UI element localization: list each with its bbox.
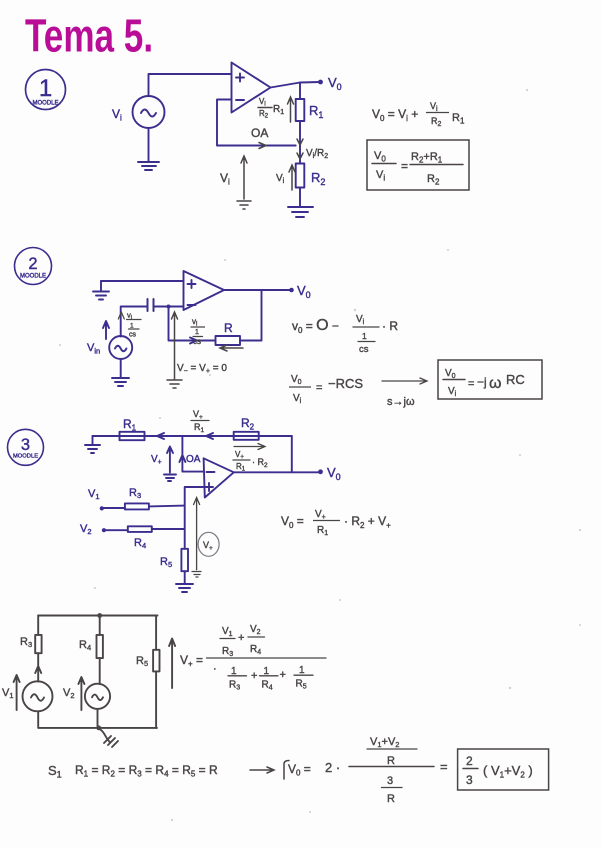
svg-text:=: = <box>316 382 322 394</box>
svg-text:cs: cs <box>359 344 369 355</box>
svg-text:V1+V2: V1+V2 <box>370 736 399 749</box>
svg-text:cs: cs <box>193 337 201 346</box>
svg-text:OA: OA <box>186 454 201 465</box>
svg-text:R1 = R2 = R3 = R4 = R5 = R: R1 = R2 = R3 = R4 = R5 = R <box>75 763 218 779</box>
svg-text:+: + <box>251 670 257 682</box>
svg-text:1: 1 <box>264 666 270 677</box>
svg-text:3: 3 <box>466 773 473 787</box>
svg-text:MOODLE: MOODLE <box>32 101 58 107</box>
svg-text:1: 1 <box>362 331 367 341</box>
svg-text:−j: −j <box>477 375 487 389</box>
svg-text:R: R <box>387 755 395 767</box>
svg-text:=: = <box>468 378 474 390</box>
svg-text:1: 1 <box>231 666 237 677</box>
svg-text:MOODLE: MOODLE <box>20 274 46 280</box>
svg-text:2: 2 <box>28 255 37 273</box>
svg-text:1: 1 <box>195 329 199 336</box>
svg-text:=: = <box>440 759 448 774</box>
svg-text:1: 1 <box>130 323 134 330</box>
svg-text:2 ·: 2 · <box>325 760 340 775</box>
svg-text:3: 3 <box>387 775 393 787</box>
svg-text:=: = <box>401 159 408 173</box>
svg-text:cs: cs <box>129 332 137 339</box>
svg-text:s→jω: s→jω <box>387 396 415 408</box>
svg-text:V0 = Vi +: V0 = Vi + <box>372 107 418 123</box>
svg-text:1: 1 <box>299 665 305 676</box>
svg-text:Tema 5.: Tema 5. <box>25 10 153 62</box>
svg-text:ω: ω <box>489 375 502 392</box>
svg-text:( V1+V2 ): ( V1+V2 ) <box>483 763 533 780</box>
svg-text:1: 1 <box>39 75 52 102</box>
svg-text:RC: RC <box>506 372 525 387</box>
svg-text:R: R <box>224 321 233 335</box>
svg-text:+: + <box>280 669 286 681</box>
svg-text:MOODLE: MOODLE <box>13 454 38 460</box>
svg-text:R: R <box>387 793 395 805</box>
svg-text:+: + <box>238 632 244 644</box>
svg-text:3: 3 <box>21 436 30 454</box>
svg-text:· R2 + V+: · R2 + V+ <box>344 514 391 530</box>
svg-text:−RCS: −RCS <box>328 376 363 391</box>
svg-text:2: 2 <box>466 754 473 768</box>
svg-text:·: · <box>213 663 217 675</box>
svg-text:· R: · R <box>382 319 398 333</box>
svg-text:OA: OA <box>251 126 268 140</box>
